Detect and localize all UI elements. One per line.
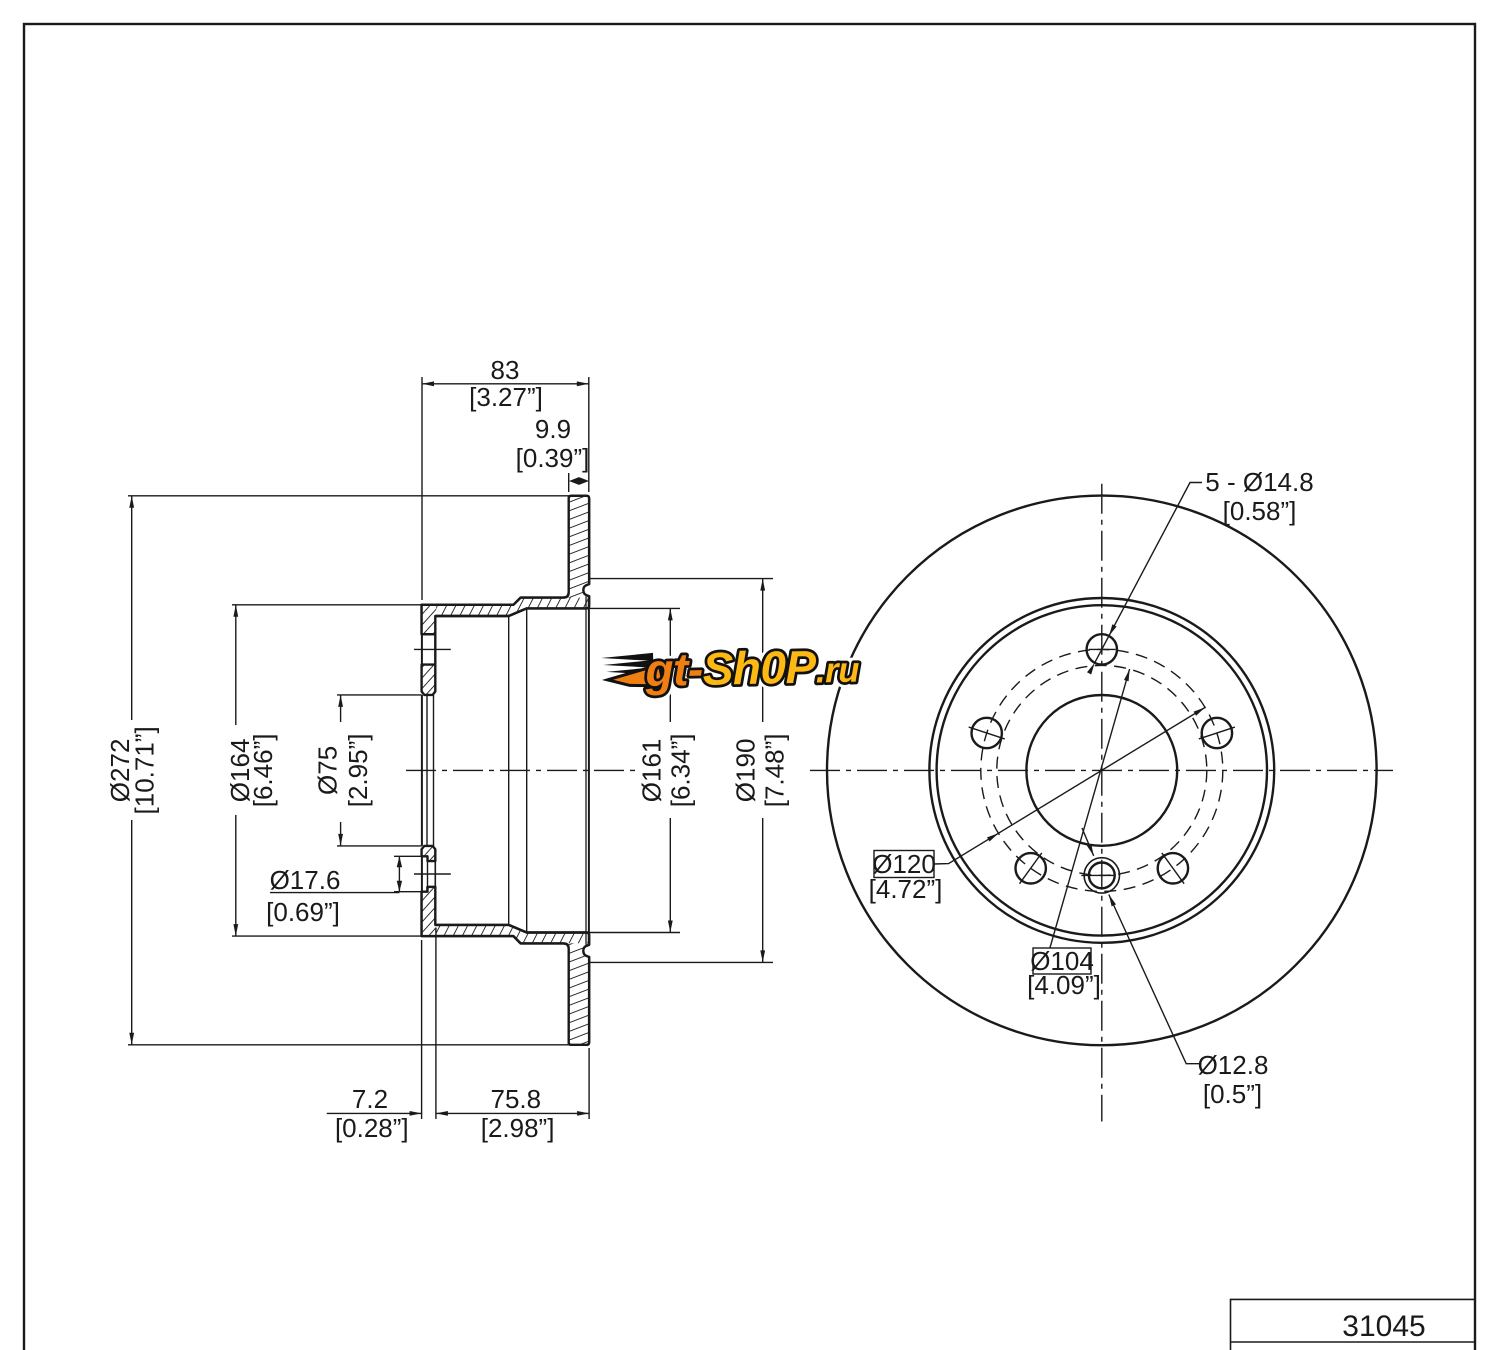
dimension Ø190 [7.48"] friction surface inner dia <box>589 578 773 580</box>
front view: bolt hole Ø14.8 at 0 deg <box>1087 634 1117 664</box>
svg-text:75.8: 75.8 <box>490 1084 541 1114</box>
svg-text:5 - Ø14.8: 5 - Ø14.8 <box>1205 467 1313 497</box>
leader 5-Ø14.8 bolt holes <box>1095 483 1202 663</box>
dimension Ø164 [6.46"] hat outer diameter <box>232 604 422 606</box>
dimension Ø17.6 [0.69"] pin counterbore <box>394 855 422 857</box>
dimension 75.8 [2.98"] hat depth <box>588 1048 590 1119</box>
svg-text:83: 83 <box>491 355 520 385</box>
background edge: drum inner step circle (near disc) <box>526 608 528 932</box>
svg-text:Ø190: Ø190 <box>731 739 761 803</box>
svg-text:[0.69”]: [0.69”] <box>266 897 340 927</box>
front view: vertical centre line <box>1101 484 1103 1122</box>
title block <box>1231 1299 1476 1350</box>
leader Ø12.8 pin hole <box>1109 895 1202 1064</box>
background edge: relief groove bottom circle <box>585 596 587 945</box>
svg-text:[0.58”]: [0.58”] <box>1223 496 1297 526</box>
front view: hat step circle <box>929 598 1274 943</box>
background edge: bore chamfer circle (inner) <box>433 695 435 846</box>
front view: centre bore Ø75 <box>1026 695 1177 846</box>
background edge: counterbore opening at outer face <box>421 856 423 891</box>
svg-text:[0.28”]: [0.28”] <box>335 1113 409 1143</box>
front view: pin circle Ø104 (dashed) <box>997 665 1207 875</box>
background edge: bore chamfer circle (outer) <box>426 695 428 846</box>
svg-text:[2.95”]: [2.95”] <box>343 734 373 808</box>
section: wall sliver between bore bottom and pin hole (hatched) <box>422 846 436 861</box>
short leader to pin counterbore <box>1082 828 1094 856</box>
bolt hole centre tick (section) <box>414 648 451 650</box>
svg-text:Ø17.6: Ø17.6 <box>270 865 341 895</box>
front view: bolt hole Ø14.8 at 72 deg <box>1202 718 1232 748</box>
background edge: bore opening at outer wall face <box>421 695 423 846</box>
svg-text:[4.72”]: [4.72”] <box>869 874 943 904</box>
dimension 9.9 [0.39"] disc thickness <box>568 473 570 492</box>
dimension Ø161 [6.34"] friction ring inner dia <box>589 607 680 609</box>
front view: bolt circle Ø120 (dashed) <box>981 649 1223 891</box>
svg-text:9.9: 9.9 <box>535 414 571 444</box>
section axis centre line <box>406 769 640 771</box>
svg-text:[0.39”]: [0.39”] <box>516 443 590 473</box>
svg-text:[6.34”]: [6.34”] <box>666 734 696 808</box>
svg-text:Ø75: Ø75 <box>313 746 343 795</box>
svg-text:Ø161: Ø161 <box>637 739 667 803</box>
svg-text:[7.48”]: [7.48”] <box>760 734 790 808</box>
background edge: friction face plane across hat void <box>588 596 590 945</box>
background edge: drum inner step circle (near wall) <box>508 616 510 925</box>
front view: bolt hole Ø14.8 at 216 deg <box>1015 853 1045 883</box>
svg-text:gt-Sh0P.ru: gt-Sh0P.ru <box>644 640 860 696</box>
svg-text:Ø12.8: Ø12.8 <box>1198 1050 1269 1080</box>
svg-text:[2.98”]: [2.98”] <box>481 1113 555 1143</box>
dimension 83 [3.27"] overall width <box>421 377 423 600</box>
svg-text:7.2: 7.2 <box>352 1084 388 1114</box>
svg-text:31045: 31045 <box>1342 1310 1425 1343</box>
leader + label Ø120 bolt circle <box>934 707 1205 864</box>
svg-text:[10.71”]: [10.71”] <box>130 726 160 814</box>
background edge: counterbore bottom circle <box>427 861 429 887</box>
background edge: bolt hole opening at inner face <box>434 634 436 664</box>
front view: bolt hole Ø14.8 at 288 deg <box>972 718 1002 748</box>
front view: pin counterbore Ø17.6 <box>1084 858 1119 893</box>
front view: disc outer circle Ø272 <box>827 496 1377 1046</box>
dimension Ø272 [10.71"] outer diameter <box>128 495 569 497</box>
dimension 7.2 [0.28"] wall thickness <box>421 940 423 1119</box>
background edge: bolt hole opening at outer face <box>421 634 423 664</box>
gt-shop.ru watermark logo <box>601 640 860 697</box>
front view: locating pin hole Ø12.8 <box>1089 863 1115 889</box>
front view: bolt hole Ø14.8 at 144 deg <box>1158 853 1188 883</box>
front view: horizontal centre line <box>810 769 1393 771</box>
leader + label Ø104 pin circle <box>1050 669 1130 948</box>
svg-text:[3.27”]: [3.27”] <box>469 382 543 412</box>
section: wall segment between bolt hole and centre bore (hatched) <box>422 665 436 695</box>
svg-text:[0.5”]: [0.5”] <box>1203 1079 1262 1109</box>
pin hole centre tick (section) <box>414 873 451 875</box>
front view: hat outer circle Ø164 <box>937 605 1267 935</box>
background edge: pin hole opening at inner face <box>434 861 436 887</box>
pin hole centre tick <box>1081 874 1115 876</box>
svg-text:[4.09”]: [4.09”] <box>1027 970 1101 1000</box>
dimension Ø75 [2.95"] centre bore <box>337 694 422 696</box>
svg-text:[6.46”]: [6.46”] <box>248 734 278 808</box>
